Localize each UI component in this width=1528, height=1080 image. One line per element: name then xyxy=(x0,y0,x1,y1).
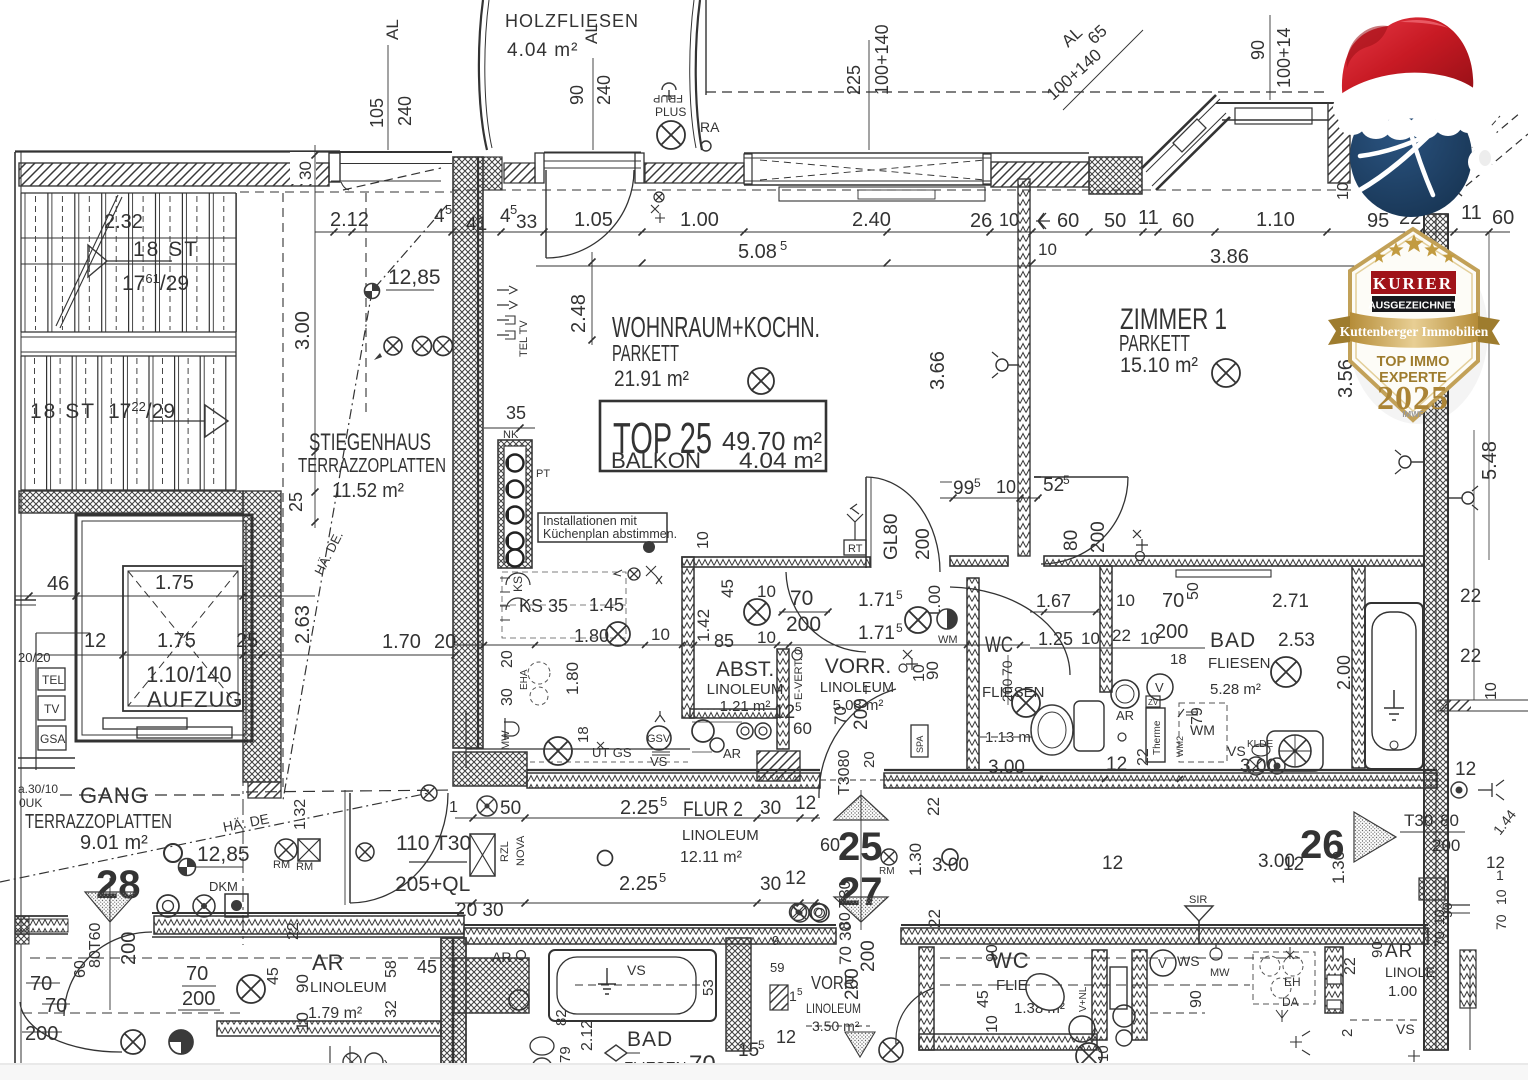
svg-text:60: 60 xyxy=(1057,210,1079,232)
fixtures bottom strip left xyxy=(330,1046,350,1080)
svg-text:PLUS: PLUS xyxy=(655,105,686,119)
svg-text:18 ST: 18 ST xyxy=(30,400,96,423)
door arc vorr to corridor xyxy=(819,689,896,798)
lamp + wm circle vorr xyxy=(905,607,931,633)
stair arrow upper xyxy=(88,245,107,277)
dashed lines AR room xyxy=(30,957,460,959)
right edge wall stubs xyxy=(1448,904,1470,906)
svg-text:5: 5 xyxy=(797,987,803,998)
svg-text:12: 12 xyxy=(1283,854,1304,875)
heater symbol right wall xyxy=(1399,456,1411,468)
door 110 T30 arc xyxy=(350,793,448,903)
svg-text:SPA: SPA xyxy=(915,736,925,753)
svg-text:WM: WM xyxy=(1190,722,1215,738)
svg-text:AUSGEZEICHNET: AUSGEZEICHNET xyxy=(1368,300,1458,312)
svg-text:ABST.: ABST. xyxy=(716,658,774,681)
svg-text:22: 22 xyxy=(1460,586,1481,607)
svg-text:12,85: 12,85 xyxy=(197,843,250,866)
svg-text:BALKON: BALKON xyxy=(611,448,701,473)
svg-text:DA: DA xyxy=(1282,995,1299,1009)
switch symbol near 1.00 xyxy=(654,192,664,202)
svg-text:12: 12 xyxy=(1102,853,1123,874)
svg-text:22: 22 xyxy=(1342,957,1359,975)
svg-text:1.13 m²: 1.13 m² xyxy=(985,729,1036,746)
crosshatch block under corridor xyxy=(454,958,529,1013)
lamp bad xyxy=(1271,657,1301,687)
svg-text:5.28 m²: 5.28 m² xyxy=(1210,681,1261,698)
svg-text:95: 95 xyxy=(1367,210,1389,232)
svg-text:5: 5 xyxy=(896,621,903,635)
bathtub upper xyxy=(1365,603,1423,769)
balcony door jambs xyxy=(535,153,544,183)
svg-text:5: 5 xyxy=(974,476,981,490)
dim lines elevator xyxy=(15,595,315,597)
svg-text:200: 200 xyxy=(1088,521,1109,553)
svg-text:4.04 m²: 4.04 m² xyxy=(507,40,578,61)
svg-text:10: 10 xyxy=(757,582,776,601)
svg-text:AL: AL xyxy=(383,19,402,40)
window band right of balcony xyxy=(744,152,1089,154)
dim line flur top xyxy=(455,817,820,819)
svg-text:BAD: BAD xyxy=(627,1028,673,1051)
top wall pier xyxy=(329,153,340,182)
door arc GL80 xyxy=(866,477,940,572)
svg-text:100+140: 100+140 xyxy=(872,24,892,95)
svg-text:1.32: 1.32 xyxy=(292,799,309,830)
svg-text:41: 41 xyxy=(466,214,487,235)
circle right flur xyxy=(942,849,958,865)
kitchen counter dashed boxes xyxy=(500,604,628,606)
svg-text:1: 1 xyxy=(789,988,797,1004)
svg-text:1: 1 xyxy=(449,799,458,816)
svg-text:10: 10 xyxy=(996,477,1016,497)
svg-text:LINOLEUM: LINOLEUM xyxy=(310,979,387,996)
triangle 26 stippled xyxy=(1354,812,1396,862)
svg-text:1.10: 1.10 xyxy=(1256,209,1295,231)
svg-text:10: 10 xyxy=(984,1015,1001,1033)
svg-text:10: 10 xyxy=(1038,240,1057,259)
corridor bottom wall left short xyxy=(15,915,68,917)
svg-text:EHA: EHA xyxy=(519,669,530,690)
svg-text:RZL: RZL xyxy=(499,841,511,862)
SPA box xyxy=(911,725,928,757)
svg-text:70: 70 xyxy=(1162,590,1184,612)
TOP 25 box xyxy=(600,401,826,471)
svg-text:2.63: 2.63 xyxy=(292,605,314,644)
svg-text:12,85: 12,85 xyxy=(388,266,441,289)
corridor bottom wall band mid xyxy=(464,924,836,926)
svg-text:15.10 m²: 15.10 m² xyxy=(1120,354,1198,377)
circle fixture xyxy=(509,990,529,1010)
dashed corner top right xyxy=(1452,113,1520,170)
dashed stair edge lines xyxy=(282,193,284,790)
shelf rect bath xyxy=(1176,570,1271,577)
diamond xyxy=(605,1045,627,1061)
lamp wc xyxy=(1012,689,1040,717)
door 110 T30 leaf xyxy=(349,793,351,903)
ground symbol tub2 xyxy=(598,968,616,994)
svg-text:1.42: 1.42 xyxy=(694,609,713,642)
svg-text:25: 25 xyxy=(286,492,306,512)
svg-text:GSV: GSV xyxy=(647,733,671,745)
Installationen note box xyxy=(538,513,667,542)
svg-text:1.21 m²: 1.21 m² xyxy=(720,698,771,715)
svg-text:1.25: 1.25 xyxy=(1038,629,1073,649)
switch K vorr xyxy=(903,650,918,670)
santa hat fur band xyxy=(1349,89,1472,109)
svg-text:82: 82 xyxy=(553,1009,570,1026)
svg-text:20: 20 xyxy=(434,631,456,653)
AUSGEZEICHNET black box xyxy=(1372,296,1455,312)
svg-text:22: 22 xyxy=(285,922,302,940)
svg-text:TOP IMMO: TOP IMMO xyxy=(1377,354,1450,370)
svg-text:10: 10 xyxy=(999,210,1019,230)
diagonal exterior wall xyxy=(1142,95,1216,168)
svg-text:45: 45 xyxy=(975,990,992,1008)
svg-text:46: 46 xyxy=(47,573,69,595)
balcony left wall curve xyxy=(479,0,487,150)
svg-text:DKM: DKM xyxy=(209,879,238,894)
dim line zimmer door xyxy=(940,497,1040,499)
svg-text:90: 90 xyxy=(923,661,942,680)
svg-text:240: 240 xyxy=(594,75,614,105)
main dim line y232 xyxy=(315,231,1510,233)
svg-text:VS: VS xyxy=(650,754,668,769)
dashed lines lower corridor rooms xyxy=(940,957,1300,959)
wall M1 segment 2 xyxy=(950,556,1008,566)
svg-text:2.48: 2.48 xyxy=(568,294,590,333)
svg-text:NOVA: NOVA xyxy=(515,835,527,866)
stair flight upper 18 ST xyxy=(21,192,236,194)
svg-text:AR: AR xyxy=(723,746,741,761)
V WS room xyxy=(1150,950,1176,976)
stair diagonal line xyxy=(56,195,118,326)
svg-text:10: 10 xyxy=(651,625,670,644)
vertical dim line stairwell xyxy=(314,145,316,528)
wall ABST bottom xyxy=(690,709,777,718)
svg-text:240: 240 xyxy=(395,96,415,126)
svg-text:10: 10 xyxy=(1095,1045,1112,1062)
fan unit xyxy=(1267,731,1323,771)
svg-text:BAD: BAD xyxy=(1210,629,1256,652)
svg-text:V: V xyxy=(1155,680,1164,695)
DKM symbols xyxy=(157,895,179,917)
svg-text:VS: VS xyxy=(1396,1021,1415,1037)
elevator door rails xyxy=(103,718,187,729)
svg-text:GL80: GL80 xyxy=(881,514,902,560)
svg-text:3.00: 3.00 xyxy=(988,757,1025,778)
left exterior wall xyxy=(14,152,16,935)
top wall right horizontal xyxy=(1216,102,1348,104)
svg-text:70: 70 xyxy=(1493,914,1509,930)
svg-text:4: 4 xyxy=(434,206,445,227)
svg-text:58: 58 xyxy=(383,960,400,978)
svg-text:200: 200 xyxy=(786,613,821,636)
svg-text:MW: MW xyxy=(1210,967,1230,979)
santa hat pompom xyxy=(1468,126,1499,180)
svg-text:5: 5 xyxy=(1063,473,1070,487)
heater symbol left wall zimmer xyxy=(996,359,1008,371)
kitchen appliance column NK xyxy=(498,440,532,568)
hatch block right of vertical wall xyxy=(504,163,535,183)
svg-text:52: 52 xyxy=(1043,475,1064,496)
dim line y263 xyxy=(536,265,1437,267)
ABST door arc xyxy=(786,572,866,652)
svg-text:2.71: 2.71 xyxy=(1272,591,1309,612)
door opening top-left with dashed leaf xyxy=(340,151,452,153)
svg-text:WM2: WM2 xyxy=(1175,736,1185,757)
svg-text:5: 5 xyxy=(758,1038,765,1052)
svg-text:200: 200 xyxy=(25,1023,58,1045)
svg-text:80 T30: 80 T30 xyxy=(837,880,854,930)
svg-text:18: 18 xyxy=(575,726,592,743)
lamp RM flur xyxy=(881,849,897,865)
svg-text:KS 35: KS 35 xyxy=(519,596,568,616)
svg-text:225: 225 xyxy=(844,65,864,95)
hatched band mid xyxy=(645,163,744,183)
svg-text:WS: WS xyxy=(1177,953,1200,969)
svg-text:MW: MW xyxy=(500,730,512,750)
balcony right wall curve xyxy=(696,0,702,150)
svg-text:70: 70 xyxy=(30,973,52,995)
svg-text:3.00: 3.00 xyxy=(1240,756,1277,777)
wall telecom symbols xyxy=(497,290,509,335)
svg-text:9: 9 xyxy=(772,933,779,948)
svg-text:12: 12 xyxy=(785,868,806,889)
svg-text:TEL: TEL xyxy=(42,673,64,687)
svg-text:30: 30 xyxy=(760,874,781,895)
svg-text:90: 90 xyxy=(984,944,1001,962)
santa hat red cap xyxy=(1342,17,1473,107)
sink circles xyxy=(692,720,714,742)
svg-text:1.80: 1.80 xyxy=(563,662,582,695)
svg-text:LINOLE: LINOLE xyxy=(1385,964,1435,980)
svg-text:5.08: 5.08 xyxy=(738,241,777,263)
svg-text:FRUP: FRUP xyxy=(653,92,683,104)
heater right xyxy=(1462,492,1474,504)
RM lamp + box xyxy=(275,839,297,861)
svg-text:9.01 m²: 9.01 m² xyxy=(80,832,148,854)
svg-text:1.05: 1.05 xyxy=(574,209,613,231)
svg-text:25: 25 xyxy=(236,630,258,652)
svg-text:12.11 m²: 12.11 m² xyxy=(680,849,743,866)
dark wall AR left xyxy=(441,938,466,1080)
svg-text:22: 22 xyxy=(1112,626,1131,645)
elevator dashed diagonals xyxy=(128,571,238,706)
stair flight lower 18 ST xyxy=(20,356,22,490)
GSV circle xyxy=(647,726,671,750)
svg-text:200: 200 xyxy=(1155,621,1188,643)
svg-text:EH: EH xyxy=(1284,975,1301,989)
svg-text:10: 10 xyxy=(1483,682,1500,700)
svg-text:1.00: 1.00 xyxy=(1388,983,1417,1000)
svg-text:10: 10 xyxy=(757,628,776,647)
badge shield xyxy=(1350,229,1478,420)
svg-text:RM: RM xyxy=(273,859,290,871)
left wall below gang xyxy=(14,935,16,1076)
zimmer door leaf xyxy=(1041,476,1128,478)
lamp wc2 xyxy=(1076,1043,1102,1069)
interior wall zimmer1 left crosshatch xyxy=(1018,179,1030,556)
svg-text:0UK: 0UK xyxy=(19,796,42,810)
small hatch block xyxy=(770,985,788,1010)
switch zimmer door xyxy=(1133,530,1148,551)
corridor top wall band left xyxy=(527,769,820,771)
bottom scan strip xyxy=(0,1063,1528,1080)
dim line balcony vertical xyxy=(592,58,594,150)
smoke detector end xyxy=(421,785,437,801)
svg-text:12: 12 xyxy=(1106,754,1127,775)
dim ticks bath xyxy=(1030,611,1100,613)
svg-text:5: 5 xyxy=(660,794,667,809)
svg-text:70: 70 xyxy=(831,706,850,725)
svg-text:79: 79 xyxy=(557,1046,574,1063)
svg-text:105: 105 xyxy=(367,98,387,128)
svg-text:90: 90 xyxy=(1248,40,1268,60)
svg-text:2.32: 2.32 xyxy=(104,211,143,233)
lamp pair bottom left xyxy=(121,1030,145,1054)
WC bottom room walls xyxy=(919,947,934,1050)
toilet bottom xyxy=(1019,966,1072,1018)
svg-text:20: 20 xyxy=(499,650,516,668)
WM dashed box xyxy=(1179,703,1227,762)
svg-text:LINOLEUM: LINOLEUM xyxy=(806,1000,861,1016)
svg-text:12: 12 xyxy=(795,793,816,814)
svg-text:12: 12 xyxy=(776,1027,796,1047)
svg-text:60: 60 xyxy=(1492,207,1514,229)
zimmer door arc xyxy=(1041,477,1128,564)
svg-text:AL: AL xyxy=(582,23,601,44)
svg-text:30: 30 xyxy=(760,798,781,819)
svg-text:90: 90 xyxy=(567,85,587,105)
svg-text:2.12: 2.12 xyxy=(579,1020,596,1051)
badge stars xyxy=(1372,250,1385,263)
svg-text:18: 18 xyxy=(1170,651,1187,668)
wall WC left xyxy=(967,578,979,770)
svg-text:22: 22 xyxy=(925,909,944,928)
svg-text:2.12: 2.12 xyxy=(330,209,369,231)
svg-text:2.25: 2.25 xyxy=(620,797,659,819)
triangle door 27b xyxy=(845,1032,875,1057)
door arc b xyxy=(896,988,934,1044)
left service boxes TEL TV GSA xyxy=(38,668,65,690)
balcony door opening lines xyxy=(544,152,641,154)
ground symbol bathtub xyxy=(1384,690,1404,720)
svg-text:10: 10 xyxy=(1335,182,1352,200)
vertical crosshatched wall (stairwell/kitchen) xyxy=(453,157,483,748)
svg-text:PT: PT xyxy=(536,468,550,480)
elevator shaft outer wall xyxy=(76,515,252,741)
svg-text:11: 11 xyxy=(1138,207,1159,229)
lamp kitchen sink xyxy=(544,737,572,765)
vertical dim line right xyxy=(1488,232,1490,560)
svg-text:26: 26 xyxy=(970,210,992,232)
small wall stub left xyxy=(15,599,36,601)
svg-text:25: 25 xyxy=(838,825,883,869)
corridor bottom wall band upper-left xyxy=(152,912,464,914)
svg-text:200: 200 xyxy=(851,698,872,730)
wall AR right room xyxy=(1325,947,1343,1013)
svg-text:1.30: 1.30 xyxy=(906,843,925,876)
svg-text:70: 70 xyxy=(45,995,67,1017)
svg-text:3.66: 3.66 xyxy=(927,351,949,390)
svg-text:RM: RM xyxy=(296,861,313,873)
hatched block ABST/corridor xyxy=(757,751,800,781)
main dim line y645 xyxy=(455,644,1030,646)
svg-text:E-VERT. O: E-VERT. O xyxy=(793,646,805,700)
svg-text:100+14: 100+14 xyxy=(1274,27,1294,88)
svg-text:10: 10 xyxy=(1081,629,1100,648)
svg-text:50: 50 xyxy=(1104,210,1126,232)
svg-text:AR: AR xyxy=(1385,941,1413,962)
lamp wohnraum xyxy=(748,368,774,394)
svg-text:1.67: 1.67 xyxy=(1036,591,1071,611)
heater glyph ar xyxy=(1290,1031,1310,1055)
svg-text:35: 35 xyxy=(506,403,526,423)
MW symbol 2 xyxy=(1210,943,1222,960)
dim marks corridor right xyxy=(1037,776,1043,782)
svg-text:ZV: ZV xyxy=(1148,698,1159,707)
svg-text:10: 10 xyxy=(1493,889,1509,905)
triangle 28 xyxy=(85,892,137,922)
survey diagonal B xyxy=(0,793,429,882)
svg-text:70: 70 xyxy=(186,963,208,985)
bathtub bottom xyxy=(549,950,716,1021)
svg-text:200: 200 xyxy=(858,940,879,972)
svg-text:200: 200 xyxy=(182,988,215,1010)
counter bottom edge xyxy=(466,748,690,750)
lamp b xyxy=(879,1038,903,1062)
svg-text:5.48: 5.48 xyxy=(1479,441,1501,480)
svg-text:12: 12 xyxy=(774,702,795,723)
door leaf GL80 xyxy=(865,477,867,568)
GANG left wall piece xyxy=(18,757,75,759)
svg-text:PARKETT: PARKETT xyxy=(1119,330,1190,356)
balcony dashed line xyxy=(706,91,1330,93)
svg-text:53: 53 xyxy=(700,979,717,996)
wall right of bath2 xyxy=(726,938,751,1051)
lamp vorraum top xyxy=(744,599,770,625)
svg-text:70: 70 xyxy=(790,587,813,610)
svg-text:12: 12 xyxy=(1455,759,1476,780)
svg-text:45: 45 xyxy=(265,967,282,985)
dashes under counter xyxy=(530,761,690,763)
svg-text:2: 2 xyxy=(1339,1029,1356,1037)
circle gang xyxy=(164,844,182,862)
right exterior wall chevron xyxy=(1424,214,1448,1050)
top exterior wall left hatched band xyxy=(15,150,340,152)
lamp cluster near stair wall xyxy=(384,337,402,355)
svg-text:5: 5 xyxy=(659,870,666,885)
wall ABST top xyxy=(682,557,870,567)
dashed balcony right mid xyxy=(1437,699,1528,701)
switch cluster entrance xyxy=(643,541,655,553)
svg-text:T30: T30 xyxy=(1404,811,1433,830)
sink AR circle xyxy=(1111,680,1139,708)
door arc bottom left 2 xyxy=(64,932,152,1016)
circle flur xyxy=(598,851,613,866)
svg-text:22: 22 xyxy=(924,797,943,816)
svg-text:VORR.: VORR. xyxy=(825,655,892,678)
svg-text:110 T30: 110 T30 xyxy=(396,832,471,855)
dashed line below top wall xyxy=(240,191,452,193)
svg-text:T3080: T3080 xyxy=(836,750,853,795)
svg-text:20 30: 20 30 xyxy=(456,900,504,921)
door arc WC xyxy=(950,587,1070,675)
wall M1 segment 3 xyxy=(1044,556,1424,566)
svg-text:1.75: 1.75 xyxy=(155,572,194,594)
svg-text:1.10/140: 1.10/140 xyxy=(146,662,232,687)
